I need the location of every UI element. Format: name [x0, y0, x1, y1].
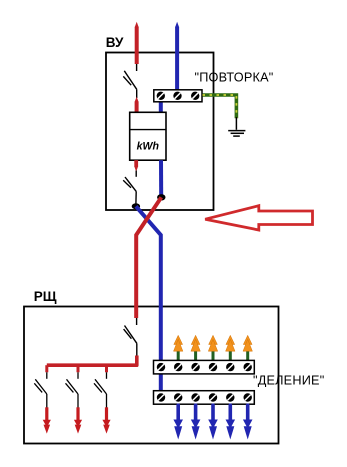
- wire swapped neutral-to-left (blue diagonal): [136, 206, 161, 391]
- node junction B (neutral end, right dot): [157, 194, 165, 200]
- wire N stub 5: [246, 404, 249, 415]
- enclosure box VU (вводное устройство): [106, 53, 214, 211]
- screw XT3-5: [226, 393, 234, 401]
- screw XT3-1: [157, 393, 165, 401]
- switch QS6 (branch 3): [94, 372, 107, 408]
- kWh meter PI1: [130, 112, 166, 160]
- screw XT2-1: [157, 363, 165, 371]
- wire N stub 1 (blue, below lower block): [177, 404, 180, 415]
- terminal block XT2 (PE bus): [154, 360, 255, 374]
- wire phase bus (red bus in РЩ): [47, 356, 137, 366]
- screw terminal XT1-2: [173, 92, 181, 100]
- screw XT2-5: [226, 363, 234, 371]
- screw XT2-2: [174, 363, 182, 371]
- wire N stub 2: [194, 404, 197, 415]
- switch QS2 (after meter): [123, 171, 136, 205]
- arrow PE outgoing 3 (orange up arrow): [208, 335, 217, 351]
- arrow outgoing line 3 (red down arrow): [102, 407, 110, 433]
- switch QS4 (branch 1): [34, 372, 47, 408]
- node junction A (phase end, left dot): [132, 203, 140, 209]
- screw XT2-4: [209, 363, 217, 371]
- screw XT2-3: [191, 363, 199, 371]
- arrow PE outgoing 1 (orange up arrow): [174, 335, 183, 351]
- arrow PE outgoing 2 (orange up arrow): [191, 335, 200, 351]
- wire PE stub 4: [229, 346, 232, 361]
- wire L phase feed (red, top): [135, 22, 139, 64]
- wire N feed (blue, top): [175, 22, 179, 91]
- arrow N outgoing 2 (blue down arrow): [191, 404, 201, 439]
- screw XT3-4: [209, 393, 217, 401]
- screw XT3-6: [244, 393, 252, 401]
- wire N stub 3: [212, 404, 215, 415]
- arrow N outgoing 4 (blue down arrow): [226, 404, 236, 439]
- svg-text:"ПОВТОРКА": "ПОВТОРКА": [195, 70, 274, 84]
- arrow outgoing line 2 (red down arrow): [74, 407, 82, 433]
- svg-text:РЩ: РЩ: [34, 289, 57, 304]
- wire PE stub 5: [246, 346, 249, 361]
- arrow N outgoing 1 (blue down arrow): [173, 404, 183, 439]
- screw XT2-6: [244, 363, 252, 371]
- wire N terminal block to meter (blue stub): [159, 101, 163, 113]
- wire N stub 4: [229, 404, 232, 415]
- ground electrode symbol: [228, 117, 245, 136]
- terminal block XT1 (N bus in ВУ): [154, 90, 202, 102]
- arrow PE outgoing 5 (orange up arrow): [243, 335, 252, 351]
- svg-text:ВУ: ВУ: [106, 35, 124, 50]
- wire N below meter (blue): [159, 160, 163, 197]
- svg-text:"ДЕЛЕНИЕ": "ДЕЛЕНИЕ": [253, 373, 324, 387]
- wire PE stub 3: [212, 346, 215, 361]
- wire bus tap 3 (red tick): [105, 365, 108, 372]
- arrow N outgoing 5 (blue down arrow): [243, 404, 253, 439]
- enclosure box RSCH (РЩ distribution board): [24, 307, 279, 444]
- switch QS1 (input disconnector): [123, 64, 136, 98]
- wire bus tap 1 (red tick): [45, 365, 48, 372]
- wire PE repeat-ground (green/yellow): [203, 95, 237, 118]
- arrow PE outgoing 4 (orange up arrow): [226, 335, 235, 351]
- screw terminal XT1-3: [191, 92, 199, 100]
- wire swapped phase-to-right (red diagonal crossing over): [136, 197, 161, 318]
- switch QS3 (RSCH main disconnector): [124, 318, 137, 356]
- arrow outgoing line 1 (red down arrow): [43, 407, 51, 433]
- wire phase below meter (red stub): [134, 160, 138, 172]
- svg-text:kWh: kWh: [137, 141, 160, 153]
- terminal block XT3 (N bus): [154, 391, 255, 405]
- screw XT3-3: [191, 393, 199, 401]
- wire PE stub 1 (green, above upper block): [177, 346, 180, 361]
- callout arrow (big red outline arrow pointing left at the swap): [205, 206, 312, 230]
- wire bus tap 2 (red tick): [77, 365, 80, 372]
- screw XT3-2: [174, 393, 182, 401]
- switch QS5 (branch 2): [66, 372, 79, 408]
- arrow N outgoing 3 (blue down arrow): [208, 404, 218, 439]
- wire PE stub 2: [194, 346, 197, 361]
- screw terminal XT1-1: [157, 92, 165, 100]
- wire phase to meter (red stub): [135, 97, 139, 113]
